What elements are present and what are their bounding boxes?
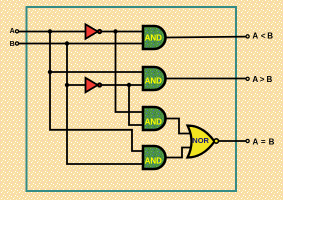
svg-text:A: A: [253, 138, 259, 147]
svg-text:=: =: [261, 138, 266, 147]
svg-text:B: B: [269, 138, 275, 147]
svg-text:AND: AND: [145, 33, 163, 42]
svg-text:<: <: [261, 32, 266, 41]
svg-text:>: >: [260, 75, 265, 84]
svg-text:B: B: [267, 75, 273, 84]
svg-text:A: A: [252, 75, 258, 84]
svg-text:A: A: [252, 32, 258, 41]
svg-text:B: B: [10, 41, 15, 48]
svg-text:AND: AND: [145, 76, 163, 85]
svg-text:B: B: [267, 32, 273, 41]
svg-text:AND: AND: [145, 118, 163, 127]
svg-text:NOR: NOR: [192, 136, 209, 145]
svg-text:AND: AND: [145, 157, 163, 166]
svg-text:A: A: [10, 28, 15, 35]
